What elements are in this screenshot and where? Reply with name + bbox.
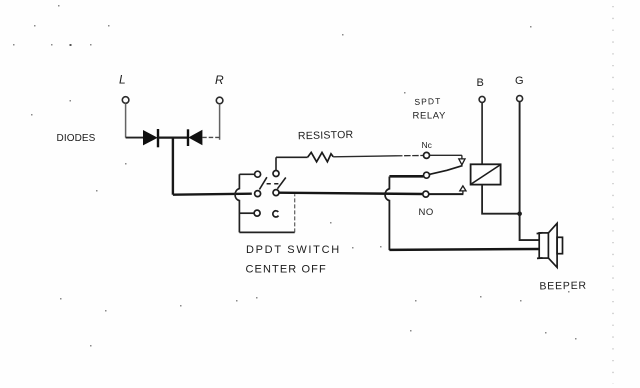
scan noise <box>13 5 577 347</box>
switch coupling dashed link <box>267 183 280 185</box>
wire G terminal down to beeper <box>520 102 540 241</box>
wire switch bracket left vertical with hop over pole wire <box>235 174 239 232</box>
wire D2 anode to R corner <box>202 136 219 138</box>
wire R terminal down to diode D2 <box>219 104 221 140</box>
wire between diode cathodes <box>158 137 188 139</box>
relay coil K1 <box>471 164 501 184</box>
svg-text:SPDT: SPDT <box>414 96 441 107</box>
svg-text:DPDT SWITCH: DPDT SWITCH <box>246 244 341 256</box>
switch lever right pole <box>277 178 285 189</box>
wire junction to switch pole ML <box>173 194 252 195</box>
relay common contact <box>424 172 430 178</box>
svg-text:G: G <box>515 75 524 87</box>
DPDT switch contact ML <box>255 191 261 197</box>
DPDT switch contact TL <box>255 171 261 177</box>
resistor <box>308 152 334 161</box>
svg-text:R: R <box>215 73 224 87</box>
wire common junction down with hop over NO wire <box>385 177 389 251</box>
wire relay coil down and right to G line <box>482 185 519 214</box>
svg-text:BEEPER: BEEPER <box>539 280 587 293</box>
wire switch bracket right vertical up to output <box>294 194 296 232</box>
wire BL contact stub left <box>239 212 254 214</box>
wire L terminal down to diode D1 <box>125 103 127 137</box>
terminal G <box>517 96 523 102</box>
svg-text:DIODES: DIODES <box>57 133 96 144</box>
wire switch output to relay NO <box>279 193 423 194</box>
DPDT switch contact BR open <box>273 211 279 217</box>
svg-text:L: L <box>119 73 126 87</box>
svg-text:RESISTOR: RESISTOR <box>298 129 354 142</box>
relay NO contact <box>423 191 429 197</box>
switch lever left pole <box>259 177 267 189</box>
relay armature <box>430 166 463 175</box>
wire relay common from junction <box>389 175 423 178</box>
wire TL contact stub left <box>239 173 254 175</box>
svg-text:CENTER OFF: CENTER OFF <box>246 264 327 276</box>
wire L corner to D1 anode <box>126 137 144 139</box>
wire diode junction down <box>172 138 174 194</box>
svg-text:RELAY: RELAY <box>413 111 447 122</box>
scanner edge artifact dotted column <box>612 6 614 384</box>
svg-text:B: B <box>477 77 484 89</box>
terminal L <box>122 97 129 104</box>
junction dot coil to G <box>517 211 522 216</box>
wire to resistor left lead <box>276 156 308 158</box>
beeper LS1 <box>537 223 563 267</box>
wire B terminal to relay coil <box>481 102 483 164</box>
wire to beeper bottom <box>389 248 539 251</box>
svg-text:Nc: Nc <box>422 140 433 150</box>
diode D1 <box>143 129 158 147</box>
wire NC contact to arrow <box>430 154 462 156</box>
terminal R <box>216 97 223 104</box>
DPDT switch contact BL <box>254 210 260 216</box>
DPDT switch contact MR <box>273 190 279 196</box>
relay NC contact <box>424 152 430 158</box>
svg-text:NO: NO <box>419 207 434 218</box>
relay NC arrow down <box>459 155 465 165</box>
wire resistor right lead to relay NC <box>333 156 396 157</box>
wire TR contact up to resistor <box>275 157 277 170</box>
relay NO arrow up <box>460 186 466 194</box>
wire switch bracket bottom <box>239 231 294 233</box>
diode D2 <box>188 129 202 146</box>
terminal B <box>479 96 485 102</box>
DPDT switch contact TR <box>273 171 279 177</box>
wire NO contact to arrow <box>429 193 464 195</box>
